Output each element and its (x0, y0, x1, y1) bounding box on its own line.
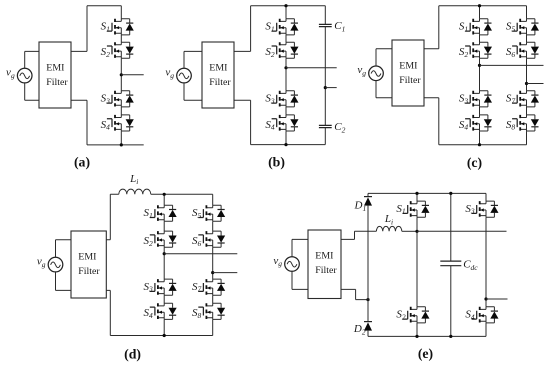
bus S3-S4 (a) (120, 107, 122, 115)
bus S6-S7 (c) (526, 58, 528, 90)
switch S5 (MOSFET with body diode) (506, 19, 539, 35)
wire phase output lower (e) (486, 298, 508, 300)
switch S1 (MOSFET with body diode) (101, 19, 134, 35)
junction capacitor midpoint (b) (324, 86, 327, 89)
wire rail to C1 (b) (324, 6, 326, 25)
bus S5-S6 (d) (212, 221, 214, 231)
switch S1 (MOSFET with body diode) (459, 19, 492, 35)
EMI filter (c) (392, 40, 424, 106)
bus S4-bottom (b) (285, 131, 287, 145)
wire EMI to inductor (d) (106, 194, 119, 239)
svg-text:Filter: Filter (399, 75, 421, 86)
switch S6 (MOSFET with body diode) (192, 231, 225, 248)
svg-text:(c): (c) (467, 155, 482, 171)
bottom rail (a) (87, 144, 144, 146)
switch S2 (MOSFET with body diode) (144, 231, 177, 248)
junction right-leg mid node (c) (525, 82, 528, 85)
junction bottom rail (c) (478, 143, 481, 146)
wire vg-top to EMI (b) (184, 51, 202, 68)
inductor Li (e) (376, 213, 401, 231)
bus S2-S3 (a) (120, 58, 122, 90)
circuit (a): full-bridge with bidirectional switch leg (6, 6, 144, 171)
switch S2 (MOSFET with body diode) (265, 42, 298, 59)
wire EMI to bottom rail (b) (234, 100, 251, 144)
EMI filter (d) (71, 231, 106, 298)
top rail (e) (368, 192, 486, 194)
wire left-leg mid output (c) (480, 64, 544, 66)
junction bottom node (a) (120, 143, 123, 146)
switch S4 (MOSFET with body diode) (101, 115, 134, 132)
wire top rail to D1 (e) (367, 193, 369, 196)
bottom rail (e) (368, 335, 486, 337)
switch S7 (MOSFET with body diode) (506, 91, 539, 107)
junction S1-S2 phase node (e) (415, 230, 418, 233)
switch S6 (MOSFET with body diode) (506, 42, 539, 59)
wire vg-top to EMI (c) (376, 49, 392, 67)
junction S3-S4 phase node (e) (484, 297, 487, 300)
EMI filter (b) (202, 42, 234, 108)
switch S3 (MOSFET with body diode) (101, 91, 134, 107)
junction D1/D2 midpoint (e) (366, 298, 369, 301)
bus top-S1 (b) (285, 6, 287, 19)
junction left-leg mid node (d) (163, 252, 166, 255)
capacitor C1 (319, 20, 345, 34)
bus S8-bottom (d) (212, 320, 214, 336)
switch S4 (MOSFET with body diode) (459, 115, 492, 132)
bus S3-S4 (b) (285, 107, 287, 115)
AC source vg (c) (357, 64, 383, 81)
bus S4-bottom (c) (479, 131, 481, 145)
bus S3-S4 (d) (163, 295, 165, 303)
top rail (c) (439, 5, 527, 7)
circuit (d): eight-switch bridge with boost inductor Li (37, 173, 237, 362)
switch S3 (MOSFET with body diode) (144, 279, 177, 295)
wire right-leg mid output (c) (527, 83, 544, 85)
wire EMI to bottom rail (c) (424, 98, 439, 145)
bus S3-S4 (e) (485, 217, 487, 306)
switch S4 (MOSFET with body diode) (465, 307, 498, 323)
bus S6-S7 (d) (212, 247, 214, 279)
bus top-S1 (c) (479, 6, 481, 19)
junction left-leg mid node (c) (478, 64, 481, 67)
bus S7-S8 (c) (526, 107, 528, 115)
inductor Li (d) (119, 173, 151, 195)
svg-text:(e): (e) (418, 346, 433, 362)
switch S4 (MOSFET with body diode) (265, 115, 298, 132)
svg-text:(d): (d) (124, 346, 141, 362)
AC source vg (b) (165, 66, 191, 83)
bus S4-bottom (a) (120, 131, 122, 145)
svg-text:Filter: Filter (46, 77, 68, 88)
wire EMI top out to inductor (e) (341, 231, 376, 239)
diode D2 (353, 322, 372, 337)
bus S2-S3 (b) (285, 58, 287, 90)
AC source vg (d) (37, 255, 63, 271)
junction mid node (b) (284, 66, 287, 69)
svg-text:EMI: EMI (78, 252, 96, 263)
wire EMI bottom out to D leg (e) (341, 289, 368, 299)
top rail (b) (251, 5, 326, 7)
bus S1-S2 (e) (416, 217, 418, 306)
wire vg-bottom to EMI (c) (376, 80, 392, 97)
wire EMI to top rail (a) (71, 6, 121, 52)
junction bottom rail S2 (e) (415, 335, 418, 338)
bus top-S3 (e) (485, 193, 487, 201)
bus S1-S2 (b) (285, 35, 287, 42)
svg-text:(b): (b) (268, 154, 285, 170)
wire vg-bottom to EMI (b) (184, 83, 202, 101)
bus top-S1 (e) (416, 193, 418, 201)
circuit (e): totem-pole bridgeless PFC with D1/D2, Li, Cdc (273, 192, 507, 362)
diode D1 (353, 197, 372, 214)
svg-text:Filter: Filter (209, 77, 231, 88)
wire vg-top to EMI (d) (56, 240, 72, 258)
svg-text:(a): (a) (74, 154, 90, 170)
bus S3-S4 (c) (479, 107, 481, 115)
EMI filter (a) (39, 42, 71, 108)
junction bottom rail (b) (284, 143, 287, 146)
junction right-leg mid node (d) (211, 271, 214, 274)
switch S1 (MOSFET with body diode) (265, 19, 298, 35)
bus top-S1 (d) (163, 194, 165, 205)
wire EMI to bottom rail (a) (71, 100, 87, 145)
svg-text:EMI: EMI (315, 251, 333, 262)
bottom rail (c) (439, 144, 527, 146)
svg-text:EMI: EMI (399, 61, 417, 72)
wire mid output (b) (286, 67, 337, 69)
switch S1 (MOSFET with body diode) (396, 201, 429, 217)
wire EMI to top rail (b) (234, 6, 251, 52)
svg-text:Filter: Filter (315, 265, 337, 276)
AC source vg (e) (273, 255, 299, 271)
switch S8 (MOSFET with body diode) (506, 115, 539, 132)
circuit (b): half-bridge with split capacitors C1/C2 (165, 4, 345, 170)
switch S8 (MOSFET with body diode) (192, 303, 225, 320)
wire vg-top to EMI (a) (25, 51, 39, 68)
wire D2 to bottom rail (e) (367, 330, 369, 336)
wire left-leg mid output (d) (164, 253, 237, 255)
bus S1-S2 (d) (163, 221, 165, 231)
wire vg-bottom to EMI (e) (292, 272, 308, 290)
AC source vg (a) (6, 66, 32, 83)
wire C2 to bottom rail (b) (324, 128, 326, 145)
bus S2-S3 (c) (479, 58, 481, 90)
wire EMI to bottom rail (d) (106, 290, 110, 335)
switch S3 (MOSFET with body diode) (265, 91, 298, 107)
bus S1-S2 (c) (479, 35, 481, 42)
wire mid output (a) (121, 74, 143, 76)
bus S8-bottom (c) (526, 131, 528, 145)
bus top-S5 (d) (212, 194, 214, 205)
wire vg-bottom to EMI (a) (25, 83, 39, 101)
junction top rail (c) (478, 4, 481, 7)
switch S2 (MOSFET with body diode) (101, 42, 134, 59)
junction top rail (d) (163, 193, 166, 196)
switch S2 (MOSFET with body diode) (396, 307, 429, 323)
switch S1 (MOSFET with body diode) (144, 205, 177, 221)
bottom rail (d) (110, 335, 212, 337)
bus S4-bottom (e) (485, 323, 487, 336)
bus S2-bottom (e) (416, 323, 418, 336)
bus S4-bottom (d) (163, 320, 165, 336)
switch S7 (MOSFET with body diode) (192, 279, 225, 295)
wire capacitor mid output (b) (325, 87, 336, 89)
junction top rail S1 (e) (415, 192, 418, 195)
bus top-S5 (c) (526, 6, 528, 19)
bus S1-S2 (a) (120, 35, 122, 42)
switch S3 (MOSFET with body diode) (459, 91, 492, 107)
top rail (d) (151, 193, 213, 195)
wire vg-top to EMI (e) (292, 239, 308, 256)
switch S5 (MOSFET with body diode) (192, 205, 225, 221)
wire phase output upper (e) (417, 230, 507, 232)
capacitor Cdc (440, 258, 478, 272)
bus S2-S3 (d) (163, 247, 165, 279)
circuit (c): back-to-back full bridge, eight switches (357, 4, 543, 171)
capacitor C2 (319, 121, 346, 135)
bottom rail (b) (251, 144, 326, 146)
svg-text:EMI: EMI (46, 63, 64, 74)
wire D1 to D2 (e) (367, 205, 369, 321)
EMI filter (e) (308, 230, 341, 299)
svg-text:EMI: EMI (209, 63, 227, 74)
bus S7-S8 (d) (212, 295, 214, 303)
svg-text:Filter: Filter (78, 266, 100, 277)
switch S2 (MOSFET with body diode) (459, 42, 492, 59)
wire C1 to C2 (b) (324, 27, 326, 126)
wire EMI to top rail (c) (424, 6, 439, 49)
wire Cdc to bottom rail (e) (450, 266, 452, 337)
wire vg-bottom to EMI (d) (56, 272, 72, 291)
junction mid node (a) (120, 73, 123, 76)
junction top rail (b) (284, 4, 287, 7)
junction top rail Cdc (e) (449, 192, 452, 195)
switch S4 (MOSFET with body diode) (144, 303, 177, 320)
wire inductor to S1 bus (e) (402, 230, 417, 232)
junction bottom rail Cdc (e) (449, 335, 452, 338)
bus S5-S6 (c) (526, 35, 528, 42)
junction bottom rail (d) (163, 334, 166, 337)
switch S3 (MOSFET with body diode) (465, 201, 498, 217)
wire right-leg mid output (d) (213, 272, 238, 274)
bus top-S1 (a) (120, 6, 122, 19)
wire top rail to Cdc (e) (450, 193, 452, 261)
